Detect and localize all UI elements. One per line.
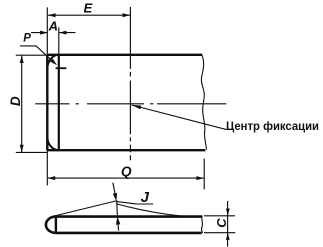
extension line left edge above plate (E/A) xyxy=(46,7,48,54)
arrowhead Q left xyxy=(48,176,56,180)
vertical centerline xyxy=(129,7,131,160)
svg-text:P: P xyxy=(23,33,31,45)
extension line Q left (below plate) xyxy=(46,150,48,185)
dimension line A right tail xyxy=(59,32,75,34)
extension line D bottom xyxy=(16,151,48,153)
J leader under label xyxy=(117,202,153,204)
arrowhead J upper xyxy=(113,193,117,201)
dimension line D xyxy=(21,56,23,153)
arrowhead A left xyxy=(40,31,48,35)
dimension line C xyxy=(227,201,229,247)
arrowhead C top xyxy=(226,209,230,216)
extension line A right xyxy=(58,28,60,55)
arrowhead Q right xyxy=(196,176,204,180)
plate left edge xyxy=(46,55,48,150)
svg-text:Q: Q xyxy=(121,164,132,179)
leader line fixation center xyxy=(132,105,227,130)
leader P xyxy=(20,46,54,62)
plate bottom edge xyxy=(47,149,205,151)
side view taper rising line xyxy=(54,201,117,216)
side view top edge xyxy=(56,215,202,218)
side view taper descending line xyxy=(117,204,183,216)
plate inner tangent line xyxy=(58,55,60,150)
arrowhead fixation leader xyxy=(132,105,142,109)
J dimension connector xyxy=(116,201,119,217)
svg-text:J: J xyxy=(141,189,150,206)
side view break line (wavy) xyxy=(201,215,202,233)
extension line D top xyxy=(16,54,47,56)
svg-text:C: C xyxy=(214,218,229,228)
dimension line E xyxy=(48,14,130,16)
arrowhead D top xyxy=(20,56,24,64)
extension line C bottom xyxy=(204,232,235,234)
svg-text:D: D xyxy=(8,96,23,106)
J lower arrow shaft xyxy=(118,219,119,231)
svg-text:E: E xyxy=(84,1,94,16)
dimension line A left tail xyxy=(31,32,48,34)
break line (wavy) right side of plate xyxy=(201,54,206,150)
arrowhead P leader xyxy=(50,59,57,66)
arrowhead J lower xyxy=(116,217,120,225)
arrowhead A right xyxy=(59,31,67,35)
corner radius arc bottom-left xyxy=(47,137,59,151)
svg-text:Центр фиксации: Центр фиксации xyxy=(226,121,319,133)
side view rounded cap xyxy=(46,217,56,233)
svg-text:A: A xyxy=(48,19,58,34)
side view cap tangent line xyxy=(55,217,57,233)
dimension line Q xyxy=(48,177,204,179)
arrowhead E left xyxy=(48,13,56,17)
extension line C top xyxy=(204,215,235,217)
arrowhead E right xyxy=(123,13,131,17)
corner radius arc top-left xyxy=(47,55,59,70)
side view bottom edge xyxy=(56,232,202,235)
J upper arrow shaft xyxy=(113,183,116,200)
plate top edge xyxy=(47,54,201,56)
arrowhead D bottom xyxy=(20,145,24,153)
radius center cross tick xyxy=(56,67,67,69)
horizontal centerline xyxy=(35,103,226,105)
arrowhead C bottom xyxy=(226,233,230,240)
extension line Q right xyxy=(203,159,205,190)
